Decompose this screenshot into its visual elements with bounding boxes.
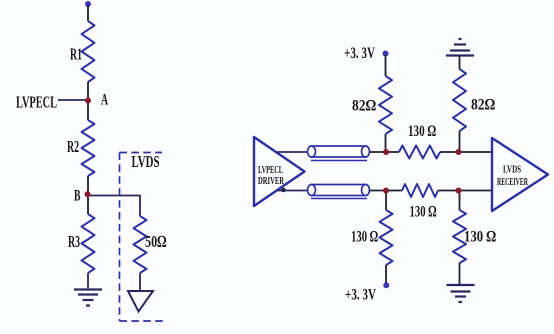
wire (B to 50ohm) (88, 196, 141, 217)
wire (87, 5, 89, 21)
wire (87, 194, 89, 214)
wire (277, 151, 311, 153)
resistor R2 (82, 120, 95, 176)
svg-text:DRIVER: DRIVER (258, 175, 285, 187)
resistor 82ohm (right) (453, 69, 466, 131)
node top-right junction (456, 149, 462, 155)
resistor 82ohm (left) (379, 76, 392, 134)
wire (87, 176, 89, 194)
ground (bottom right) (447, 285, 475, 302)
svg-text:82Ω: 82Ω (471, 97, 495, 114)
wire (139, 273, 141, 291)
resistor R3 (82, 214, 95, 273)
wire (460, 190, 493, 192)
svg-text:LVDS: LVDS (132, 152, 160, 171)
svg-text:130 Ω: 130 Ω (408, 123, 436, 140)
wire (58, 99, 88, 101)
wire (460, 151, 493, 153)
svg-text:+3. 3V: +3. 3V (344, 45, 375, 62)
svg-text:R3: R3 (68, 232, 80, 251)
wire (385, 55, 387, 76)
svg-text:R1: R1 (70, 45, 82, 64)
node A (85, 98, 91, 104)
svg-text:LVPECL: LVPECL (16, 93, 57, 112)
svg-text:+3. 3V: +3. 3V (345, 287, 376, 304)
wire (277, 190, 311, 192)
svg-text:130 Ω: 130 Ω (464, 229, 496, 246)
wire (459, 131, 461, 152)
wire (438, 190, 460, 192)
wire (385, 265, 387, 283)
svg-text:A: A (101, 92, 108, 109)
ground (top right, inverted) (446, 39, 474, 56)
node bottom-right junction (456, 188, 462, 194)
transmission line (bottom) (308, 185, 370, 199)
op-amp U2 LVDS receiver (492, 138, 548, 211)
terminator open triangle (128, 291, 153, 312)
wire (370, 190, 387, 192)
svg-text:R2: R2 (67, 137, 79, 156)
resistor 50ohm (134, 216, 147, 273)
node B (85, 191, 91, 197)
wire (386, 190, 402, 192)
wire (87, 100, 89, 120)
svg-text:82Ω: 82Ω (352, 98, 376, 115)
ground (left, under R3) (74, 290, 102, 306)
wire (459, 56, 461, 70)
svg-text:LVDS: LVDS (503, 164, 521, 176)
inversion bubble on driver output (281, 188, 286, 193)
wire (385, 191, 387, 211)
svg-text:B: B (74, 188, 81, 205)
svg-text:50Ω: 50Ω (145, 232, 167, 251)
terminal dot (supply, top left) (85, 1, 91, 7)
wire (386, 151, 399, 153)
resistor R1 (82, 21, 95, 82)
wire (87, 82, 89, 100)
wire (440, 151, 460, 153)
transmission line (top) (308, 146, 370, 161)
resistor 130ohm (lower left vertical) (380, 210, 393, 265)
wire (370, 151, 387, 153)
resistor 130ohm (top horizontal) (399, 146, 440, 159)
LVDS dashed bracket box (120, 153, 165, 322)
resistor 130ohm (bottom horizontal) (402, 184, 438, 197)
wire (459, 191, 461, 211)
wire (87, 273, 89, 290)
op-amp U1 LVPECL driver (254, 137, 305, 206)
wire (385, 134, 387, 152)
svg-text:RECEIVER: RECEIVER (497, 176, 529, 188)
node top-left junction (383, 149, 389, 155)
resistor 130ohm (lower right vertical) (453, 210, 466, 263)
terminal dot +3.3V top (383, 51, 389, 57)
node bottom-left junction (383, 188, 389, 194)
wire (459, 263, 461, 285)
svg-text:130 Ω: 130 Ω (351, 229, 378, 246)
terminal dot +3.3V bottom (383, 282, 389, 288)
svg-text:130 Ω: 130 Ω (410, 204, 437, 221)
